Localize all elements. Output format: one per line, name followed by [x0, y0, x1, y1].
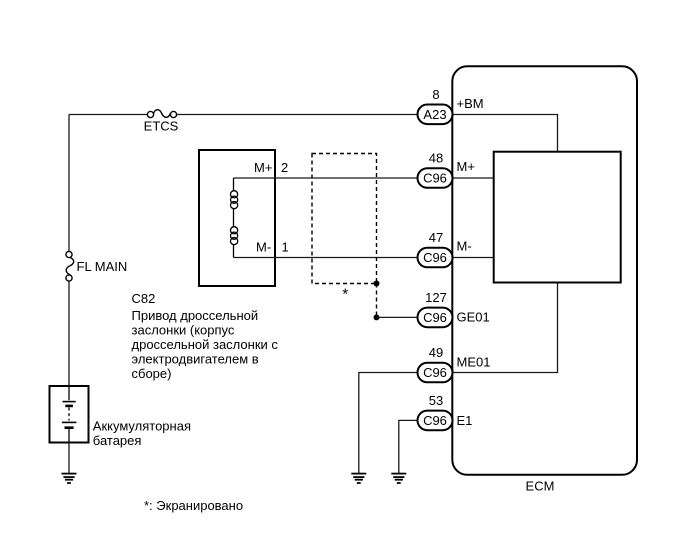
fusible link FL MAIN: [66, 251, 74, 281]
svg-text:FL MAIN: FL MAIN: [77, 259, 128, 274]
svg-text:C96: C96: [423, 413, 447, 428]
connector C96 pin 127 (GE01): [418, 290, 490, 327]
fuse ETCS: [147, 110, 176, 118]
svg-text:M+: M+: [254, 160, 272, 175]
connector C96 pin 47 (M-): [418, 230, 472, 267]
svg-text:8: 8: [432, 87, 439, 102]
wire: battery negative to ground: [68, 443, 70, 474]
wire M- : motor pin 1 to ECM pin 47: [234, 257, 418, 259]
svg-text:M-: M-: [457, 239, 472, 254]
wire: ME01 internal, pin 49 to driver block: [452, 283, 557, 373]
wire GE01 : shield drain to ECM pin 127: [377, 316, 418, 318]
svg-text:C96: C96: [423, 250, 447, 265]
svg-text:C96: C96: [423, 365, 447, 380]
svg-text:M-: M-: [256, 240, 271, 255]
battery box: [50, 386, 89, 443]
connector C96 pin 48 (M+): [418, 151, 475, 188]
ECM internal driver block: [494, 152, 621, 283]
ground (E1): [391, 474, 406, 483]
motor coil L1: [231, 191, 238, 209]
svg-text:47: 47: [429, 230, 443, 245]
svg-text:*: *: [342, 287, 348, 304]
svg-text:2: 2: [281, 160, 288, 175]
svg-text:ME01: ME01: [457, 355, 491, 370]
wire: shield drain (dashed): [376, 284, 378, 318]
junction: shield to drain: [374, 281, 380, 287]
svg-text:ETCS: ETCS: [144, 119, 179, 134]
ECM box: [452, 66, 637, 475]
motor winding connecting line: [233, 178, 235, 258]
connector A23 pin 8 (+BM): [418, 87, 484, 124]
wire: left vertical, top node to FL MAIN fuse: [68, 115, 70, 252]
svg-text:A23: A23: [423, 107, 446, 122]
svg-text:49: 49: [429, 345, 443, 360]
svg-text:Аккумуляторная: Аккумуляторная: [93, 418, 191, 433]
svg-text:*: Экранировано: *: Экранировано: [144, 498, 243, 513]
svg-text:батарея: батарея: [93, 433, 142, 448]
motor coil L2: [231, 227, 238, 245]
svg-text:электродвигателем в: электродвигателем в: [132, 352, 259, 367]
wire: FL MAIN fuse to battery positive: [68, 281, 70, 386]
svg-text:Привод дроссельной: Привод дроссельной: [132, 308, 259, 323]
throttle actuator C82 box: [199, 150, 275, 286]
ground (ME01): [351, 474, 366, 483]
connector C96 pin 53 (E1): [418, 393, 473, 430]
wire: +B feed, top horizontal from battery node to ETCS fuse: [69, 114, 147, 116]
wire: +BM internal, pin 8 to driver block: [452, 115, 557, 152]
battery cell symbol: [62, 386, 77, 443]
wire M+ : motor pin 2 to ECM pin 48: [234, 177, 418, 179]
svg-text:C96: C96: [423, 171, 447, 186]
wire: M- internal, pin 47 to driver block: [452, 257, 493, 259]
junction: drain to GE01 wire: [374, 314, 380, 320]
svg-text:53: 53: [429, 393, 443, 408]
wire: M+ internal, pin 48 to driver block: [452, 177, 493, 179]
svg-text:48: 48: [429, 151, 443, 166]
svg-text:ECM: ECM: [526, 478, 555, 493]
svg-text:E1: E1: [457, 413, 473, 428]
svg-text:+BM: +BM: [457, 96, 484, 111]
svg-text:GE01: GE01: [457, 310, 490, 325]
ground (battery): [62, 474, 77, 483]
svg-text:M+: M+: [457, 159, 475, 174]
svg-text:1: 1: [282, 240, 289, 255]
wire: ETCS fuse to ECM pin 8 (+BM): [177, 114, 418, 116]
wire ME01 : ECM pin 49 to ground: [359, 373, 418, 474]
wire E1 : ECM pin 53 to ground: [399, 420, 418, 473]
shield (dashed box around M+/M- wires): [312, 154, 377, 284]
svg-text:заслонки (корпус: заслонки (корпус: [132, 323, 235, 338]
svg-text:сборе): сборе): [132, 366, 172, 381]
svg-text:дроссельной заслонки с: дроссельной заслонки с: [132, 337, 279, 352]
svg-text:127: 127: [425, 290, 447, 305]
svg-text:C82: C82: [132, 291, 156, 306]
svg-text:C96: C96: [423, 310, 447, 325]
connector C96 pin 49 (ME01): [418, 345, 491, 382]
